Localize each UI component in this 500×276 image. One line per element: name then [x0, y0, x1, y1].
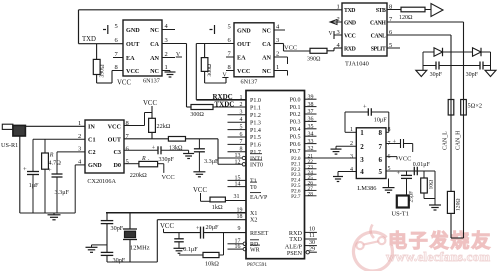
svg-text:P1.6: P1.6	[250, 143, 261, 149]
svg-text:CAN_L: CAN_L	[443, 131, 449, 150]
svg-text:VCC: VCC	[126, 68, 139, 75]
svg-text:1: 1	[337, 4, 340, 11]
svg-text:6N137: 6N137	[143, 78, 160, 85]
svg-text:8: 8	[379, 129, 383, 137]
svg-text:11: 11	[309, 233, 315, 239]
svg-text:20μF: 20μF	[206, 224, 220, 231]
svg-text:390Ω: 390Ω	[100, 64, 106, 78]
svg-text:P0.7: P0.7	[290, 149, 301, 155]
svg-text:P0.5: P0.5	[290, 134, 301, 140]
svg-text:GND: GND	[88, 162, 102, 169]
svg-text:P0.4: P0.4	[290, 127, 301, 133]
svg-text:CX20106A: CX20106A	[87, 178, 116, 185]
svg-text:8: 8	[115, 64, 118, 71]
svg-text:2: 2	[165, 51, 168, 58]
svg-text:C2: C2	[88, 149, 96, 156]
svg-text:EA: EA	[237, 54, 246, 61]
svg-text:330pF: 330pF	[159, 157, 175, 163]
svg-text:C3: C3	[113, 149, 121, 156]
svg-text:5Ω×2: 5Ω×2	[468, 103, 483, 110]
svg-text:P1.2: P1.2	[250, 113, 261, 119]
svg-text:4.7Ω: 4.7Ω	[49, 159, 62, 166]
svg-text:CA: CA	[262, 41, 271, 48]
svg-text:12MHz: 12MHz	[130, 245, 150, 252]
svg-text:D0: D0	[113, 162, 121, 169]
svg-text:VCC: VCC	[344, 33, 356, 39]
svg-text:P2.7: P2.7	[291, 194, 301, 200]
svg-text:+: +	[48, 167, 52, 174]
svg-text:220kΩ: 220kΩ	[130, 172, 147, 179]
svg-text:P0.2: P0.2	[290, 112, 301, 118]
svg-text:P0.6: P0.6	[290, 142, 301, 148]
svg-text:OUT: OUT	[237, 41, 251, 48]
svg-text:US-R1: US-R1	[1, 142, 18, 149]
svg-text:VCC: VCC	[162, 174, 175, 181]
svg-text:10Ω: 10Ω	[429, 180, 435, 190]
svg-text:1: 1	[276, 64, 279, 71]
svg-text:AN: AN	[150, 55, 159, 62]
svg-text:INT1: INT1	[250, 156, 263, 162]
svg-text:1: 1	[240, 95, 243, 101]
svg-text:P87C591: P87C591	[247, 262, 267, 268]
svg-text:电子发烧友: 电子发烧友	[388, 229, 492, 252]
svg-text:30: 30	[309, 240, 315, 246]
svg-text:10: 10	[309, 227, 315, 233]
svg-text:T0: T0	[250, 185, 257, 191]
svg-text:+: +	[23, 166, 27, 173]
svg-text:INT0: INT0	[250, 163, 263, 169]
svg-text:25μF: 25μF	[409, 191, 415, 203]
svg-text:2: 2	[240, 102, 243, 108]
svg-text:3: 3	[360, 156, 364, 164]
svg-text:EA/VP: EA/VP	[250, 195, 268, 201]
svg-text:P1.4: P1.4	[250, 128, 261, 134]
svg-text:EA: EA	[126, 55, 135, 62]
svg-text:30pF: 30pF	[111, 225, 124, 232]
svg-text:PSEN: PSEN	[287, 250, 303, 257]
svg-text:P0.3: P0.3	[290, 120, 301, 126]
svg-text:300Ω: 300Ω	[190, 112, 204, 118]
svg-text:8: 8	[228, 64, 231, 71]
svg-text:5: 5	[126, 158, 129, 165]
svg-text:C1: C1	[88, 137, 96, 144]
svg-text:WR: WR	[250, 248, 260, 254]
svg-text:3: 3	[78, 145, 81, 152]
svg-text:STB: STB	[376, 8, 386, 14]
svg-text:TXD: TXD	[82, 36, 96, 43]
svg-text:120Ω: 120Ω	[456, 198, 462, 211]
svg-text:3.3μF: 3.3μF	[55, 189, 70, 196]
svg-text:P1.3: P1.3	[250, 120, 261, 126]
svg-text:6N137: 6N137	[241, 79, 258, 86]
svg-text:X2: X2	[250, 218, 257, 224]
svg-text:VCC: VCC	[143, 100, 157, 107]
svg-text:VCC: VCC	[237, 68, 250, 75]
svg-text:P1.1: P1.1	[250, 106, 261, 112]
svg-text:VCC: VCC	[398, 156, 411, 163]
svg-text:10kΩ: 10kΩ	[205, 260, 219, 267]
svg-text:TXD: TXD	[344, 8, 355, 14]
svg-text:3: 3	[350, 154, 353, 160]
svg-text:TXD: TXD	[289, 236, 302, 243]
svg-text:2: 2	[276, 51, 279, 58]
svg-text:US-T1: US-T1	[392, 211, 409, 218]
svg-text:3.3μF: 3.3μF	[204, 158, 219, 165]
svg-text:+: +	[152, 145, 156, 151]
svg-text:18: 18	[237, 214, 243, 220]
svg-text:P0.0: P0.0	[290, 97, 301, 103]
svg-text:RXD: RXD	[344, 46, 356, 52]
svg-text:IN: IN	[88, 124, 95, 131]
svg-text:4: 4	[350, 167, 353, 173]
svg-text:GND: GND	[237, 27, 251, 34]
svg-text:+: +	[397, 170, 401, 177]
svg-text:CAN_H: CAN_H	[455, 130, 461, 150]
svg-text:2: 2	[360, 143, 364, 151]
svg-text:10μF: 10μF	[374, 116, 388, 123]
svg-text:4: 4	[360, 168, 364, 176]
svg-text:30pF: 30pF	[430, 72, 443, 78]
svg-text:NC: NC	[150, 27, 159, 34]
svg-text:NC: NC	[262, 68, 271, 75]
svg-text:P0.1: P0.1	[290, 105, 301, 111]
svg-text:R: R	[49, 152, 54, 158]
svg-text:GND: GND	[126, 27, 140, 34]
svg-text:P1.5: P1.5	[250, 135, 261, 141]
svg-text:120Ω: 120Ω	[399, 15, 413, 21]
svg-text:VCC: VCC	[108, 124, 121, 131]
svg-text:TJA1040: TJA1040	[345, 61, 369, 68]
svg-text:P1.0: P1.0	[250, 98, 261, 104]
svg-text:1μF: 1μF	[29, 182, 39, 189]
svg-text:RESET: RESET	[250, 231, 269, 237]
svg-text:30pF: 30pF	[466, 72, 479, 78]
svg-text:OUT: OUT	[126, 41, 140, 48]
svg-text:28: 28	[308, 191, 314, 197]
svg-text:22kΩ: 22kΩ	[157, 123, 171, 130]
svg-text:CANH: CANH	[370, 20, 386, 26]
svg-text:31: 31	[234, 194, 240, 200]
svg-text:9: 9	[238, 226, 241, 232]
svg-text:CANL: CANL	[371, 33, 386, 39]
svg-text:+: +	[363, 104, 367, 111]
svg-text:1kΩ: 1kΩ	[212, 204, 223, 211]
svg-text:300Ω: 300Ω	[207, 64, 213, 77]
svg-text:P1.7: P1.7	[250, 150, 261, 156]
svg-text:www.elecfans.com: www.elecfans.com	[386, 250, 490, 264]
svg-text:OUT: OUT	[108, 137, 122, 144]
svg-text:7: 7	[379, 143, 383, 151]
svg-text:0.01μF: 0.01μF	[413, 162, 431, 168]
svg-text:2: 2	[78, 133, 81, 140]
svg-text:R: R	[141, 156, 146, 162]
svg-text:GND: GND	[344, 20, 356, 26]
svg-text:1: 1	[165, 64, 168, 71]
svg-text:SPLIT: SPLIT	[371, 46, 386, 52]
svg-text:390Ω: 390Ω	[307, 56, 321, 62]
svg-text:0.1μF: 0.1μF	[183, 246, 198, 253]
svg-text:NC: NC	[262, 27, 271, 34]
svg-text:+: +	[393, 139, 397, 146]
svg-text:AN: AN	[262, 54, 271, 61]
svg-text:NC: NC	[150, 68, 159, 75]
svg-text:VCC: VCC	[117, 80, 131, 87]
svg-text:1: 1	[360, 129, 364, 137]
svg-text:LM386: LM386	[357, 185, 376, 192]
svg-text:VCC: VCC	[160, 223, 174, 230]
svg-text:29: 29	[309, 246, 315, 252]
svg-text:CA: CA	[150, 41, 159, 48]
svg-text:X1: X1	[250, 211, 257, 217]
svg-text:6: 6	[379, 156, 383, 164]
svg-text:30pF: 30pF	[113, 257, 126, 264]
svg-text:5: 5	[115, 23, 118, 30]
svg-text:5: 5	[379, 168, 383, 176]
svg-text:5: 5	[228, 24, 231, 31]
